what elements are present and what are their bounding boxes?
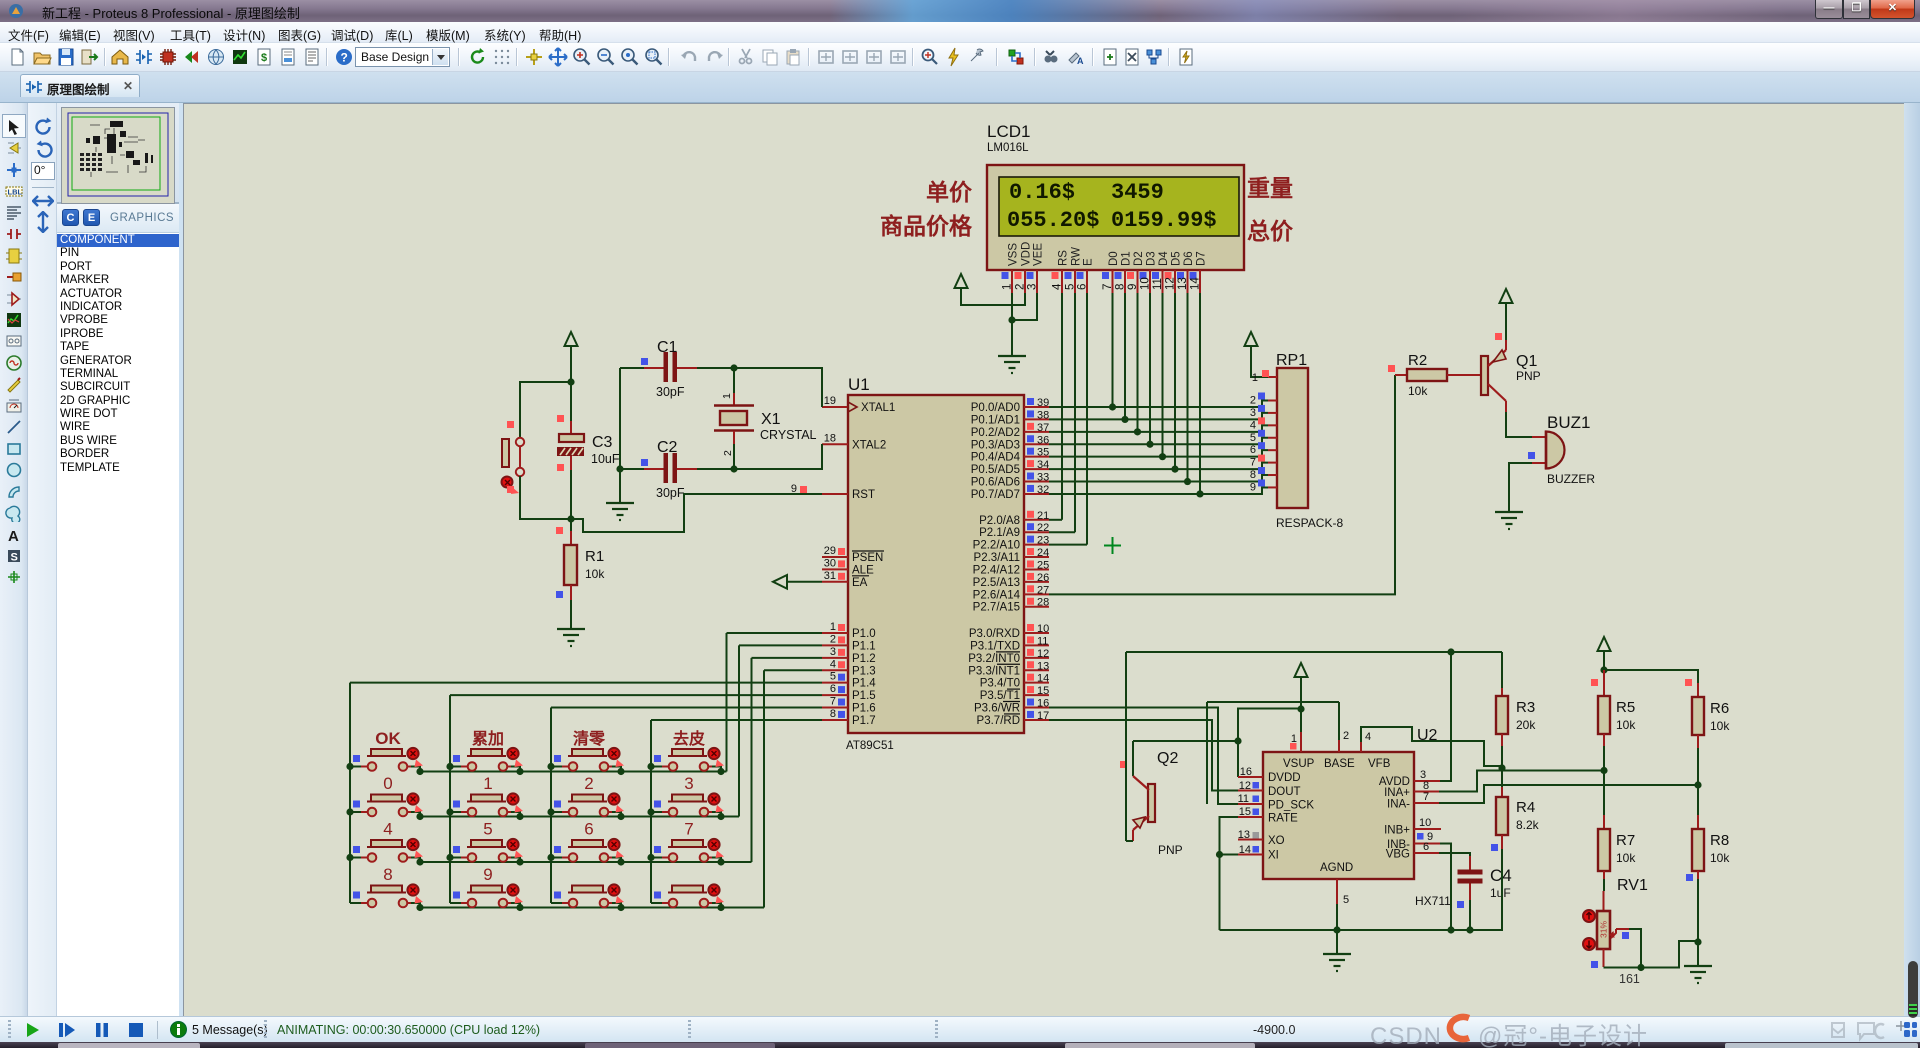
junction DVDD/Q2 emitter: [1234, 737, 1241, 744]
svg-text:U1: U1: [848, 375, 870, 394]
svg-text:RESPACK-8: RESPACK-8: [1276, 516, 1343, 530]
svg-text:8: 8: [830, 708, 836, 720]
junction keypad r2c2 bus: [516, 813, 523, 820]
svg-text:15: 15: [1239, 806, 1251, 818]
svg-text:R2: R2: [1408, 352, 1427, 369]
svg-text:VBG: VBG: [1386, 849, 1410, 861]
capacitor C2: [641, 459, 648, 466]
push button keypad r2c1: [350, 793, 423, 816]
svg-text:LCD1: LCD1: [987, 122, 1030, 141]
ground (R1): [557, 629, 585, 646]
U1 P3.6/WR overline: [1003, 701, 1020, 703]
U1 pin 37 P0.2/AD2: [1024, 431, 1049, 433]
junction D6/P0.6: [1184, 478, 1191, 485]
svg-text:10: 10: [1140, 277, 1152, 290]
svg-text:EA: EA: [852, 577, 868, 589]
svg-text:10k: 10k: [1616, 718, 1636, 732]
svg-text:D1: D1: [1121, 251, 1133, 266]
U2 pin 14 XI: [1238, 854, 1263, 856]
svg-text:C4: C4: [1490, 866, 1512, 885]
junction col2 row3: [446, 854, 453, 861]
pot RV1 actuator up: [1583, 910, 1595, 922]
svg-text:P3.2/INT0: P3.2/INT0: [968, 653, 1020, 665]
wire P1.0 to keypad row 1: [727, 632, 823, 634]
resistor R2: [1388, 365, 1395, 372]
svg-text:5: 5: [483, 820, 492, 839]
svg-text:P0.3/AD3: P0.3/AD3: [971, 439, 1020, 451]
U1 pin 33 P0.6/AD6: [1024, 481, 1049, 483]
svg-text:2: 2: [722, 450, 734, 456]
wire to XTAL2: [734, 444, 822, 469]
svg-text:D2: D2: [1133, 251, 1145, 266]
svg-text:VSS: VSS: [1008, 243, 1020, 266]
svg-text:D0: D0: [1108, 251, 1120, 266]
svg-text:累加: 累加: [472, 730, 504, 748]
keypad row 2 bus: [420, 816, 739, 818]
svg-text:4: 4: [383, 820, 392, 839]
svg-text:P0.5/AD5: P0.5/AD5: [971, 464, 1020, 476]
U1 pin 32 P0.7/AD7: [1024, 493, 1049, 495]
svg-text:INA+: INA+: [1384, 787, 1410, 799]
keypad row 3 bus: [420, 861, 752, 863]
U2 pin 5 AGND: [1336, 879, 1338, 904]
svg-text:0: 0: [383, 774, 392, 793]
svg-text:单价: 单价: [926, 179, 973, 205]
wire P0.7 to RP1 pin 9: [1049, 487, 1268, 494]
junction R8/ground: [1694, 938, 1701, 945]
svg-text:RST: RST: [852, 489, 875, 501]
svg-text:8: 8: [1115, 284, 1127, 290]
ground (LCD): [998, 356, 1026, 373]
svg-text:1: 1: [830, 621, 836, 633]
wire Q2 base to BASE: [1207, 701, 1339, 703]
junction R5 top: [1600, 666, 1607, 673]
keypad column 1 vertical: [349, 683, 351, 903]
svg-text:P1.5: P1.5: [852, 690, 876, 702]
wire P1.4 to keypad column 1: [350, 682, 822, 684]
resistor R2 lead to Q1 base: [1447, 374, 1481, 376]
U1 pin 10 P3.0/RXD: [1024, 632, 1049, 634]
svg-text:8.2k: 8.2k: [1516, 818, 1540, 832]
svg-text:C1: C1: [657, 339, 678, 356]
left tool strip: [0, 103, 28, 1016]
junction D5/P0.5: [1171, 466, 1178, 473]
junction X1 pin2: [730, 465, 737, 472]
svg-text:21: 21: [1037, 510, 1049, 522]
object selector: [57, 204, 183, 1016]
svg-text:9: 9: [1127, 284, 1139, 290]
keypad row 1 bus: [420, 771, 727, 773]
junction R6/R8/INA-: [1694, 781, 1701, 788]
junction D2/P0.2: [1134, 428, 1141, 435]
resistor R4: [1501, 768, 1503, 787]
resistor R8 bottom lead: [1697, 871, 1699, 879]
svg-text:RP1: RP1: [1276, 352, 1307, 369]
svg-text:Q1: Q1: [1516, 353, 1537, 370]
wire P3.6 to PD_SCK: [1049, 708, 1238, 804]
junction D3/P0.3: [1146, 441, 1153, 448]
svg-text:商品价格: 商品价格: [880, 213, 973, 239]
junction keypad r2c4 bus: [717, 813, 724, 820]
wire VSUP power branch to DVDD: [1238, 709, 1301, 742]
wire P0.3 to RP1 pin 5: [1049, 438, 1268, 445]
junction D7/P0.7: [1196, 490, 1203, 497]
svg-text:RS: RS: [1058, 250, 1070, 266]
wire LCD D2 to P0.2: [1137, 293, 1139, 432]
wire P0.4 to RP1 pin 6: [1049, 450, 1268, 457]
svg-text:29: 29: [824, 545, 836, 557]
svg-text:INB+: INB+: [1384, 825, 1410, 837]
resistor R4 bottom lead: [1501, 835, 1503, 849]
svg-text:5: 5: [1065, 284, 1077, 290]
svg-text:BASE: BASE: [1324, 758, 1355, 770]
svg-text:7: 7: [1423, 791, 1429, 803]
svg-text:23: 23: [1037, 535, 1049, 547]
transistor Q1 base bar: [1481, 356, 1488, 395]
watermark: [1370, 1016, 1920, 1046]
junction keypad r4c2 bus: [516, 904, 523, 911]
svg-text:161: 161: [1619, 972, 1640, 986]
svg-text:1uF: 1uF: [1490, 886, 1511, 900]
svg-text:VDD: VDD: [1021, 242, 1033, 266]
svg-text:E: E: [1083, 258, 1095, 266]
svg-text:?: ?: [341, 51, 348, 65]
svg-text:4: 4: [1052, 283, 1064, 290]
U2 pin 8 INA+: [1414, 791, 1439, 793]
svg-text:39: 39: [1037, 397, 1049, 409]
svg-text:PSEN: PSEN: [852, 552, 883, 564]
RP1 pin 6: [1268, 449, 1277, 451]
svg-text:RV1: RV1: [1617, 877, 1648, 894]
U1 pin 13 P3.3/INT1: [1024, 669, 1049, 671]
RP1 pin 5: [1268, 437, 1277, 439]
ground (U2): [1323, 954, 1351, 971]
svg-text:10k: 10k: [585, 567, 605, 581]
svg-text:D6: D6: [1183, 251, 1195, 266]
resistor R7: [1603, 771, 1605, 816]
wire P0.0 to RP1 pin 2: [1049, 401, 1268, 408]
keypad row 3 vertical: [751, 658, 753, 862]
button state squares: [507, 421, 514, 428]
junction keypad r4c4 bus: [717, 904, 724, 911]
svg-text:R8: R8: [1710, 832, 1729, 849]
capacitor C3 lead top: [570, 382, 572, 421]
U1 pin 14 P3.4/T0: [1024, 682, 1049, 684]
svg-text:P1.7: P1.7: [852, 715, 876, 727]
svg-text:P0.4/AD4: P0.4/AD4: [971, 452, 1021, 464]
orientation column: [28, 103, 57, 1016]
svg-text:R4: R4: [1516, 799, 1535, 816]
U2 pin 1 VSUP: [1300, 709, 1302, 732]
svg-text:ALE: ALE: [852, 564, 874, 576]
svg-text:RW: RW: [1071, 247, 1083, 266]
U1 pin 7 P1.6: [822, 707, 848, 709]
resistor R8: [1697, 785, 1699, 815]
junction col3 row2: [547, 808, 554, 815]
tool bar: [0, 43, 1920, 72]
U2 pin 11 PD_SCK: [1238, 803, 1263, 805]
svg-text:7: 7: [1102, 284, 1114, 290]
svg-text:7: 7: [684, 820, 693, 839]
junction col2 row2: [446, 808, 453, 815]
svg-text:$: $: [261, 52, 267, 64]
resistor R7 bottom lead: [1603, 871, 1605, 879]
wire AVDD to rail: [1440, 652, 1451, 781]
U1 pin 35 P0.4/AD4: [1024, 456, 1049, 458]
RP1 pin 3: [1268, 412, 1277, 414]
junction VSUP: [1297, 705, 1304, 712]
svg-text:36: 36: [1037, 434, 1049, 446]
svg-text:6: 6: [1423, 841, 1429, 853]
resistor R5 bottom lead: [1603, 734, 1605, 746]
U1 pin 4 P1.3: [822, 669, 848, 671]
U1 pin 5 P1.4: [822, 682, 848, 684]
svg-text:32: 32: [1037, 484, 1049, 496]
svg-text:XO: XO: [1268, 835, 1285, 847]
U1 pin 19 XTAL1: [822, 406, 848, 408]
wire P2.6 to R2 net: [1049, 375, 1395, 594]
svg-text:15: 15: [1037, 685, 1049, 697]
svg-text:OK: OK: [375, 729, 401, 748]
svg-text:10: 10: [1419, 817, 1431, 829]
svg-text:4: 4: [1365, 731, 1371, 743]
push button keypad r2c2: [450, 793, 523, 816]
U2 pin 12 DOUT: [1238, 790, 1263, 792]
U1 P3.7/RD overline: [1004, 713, 1020, 715]
wire P0.1 to RP1 pin 3: [1049, 413, 1268, 420]
RP1 pin 1: [1268, 376, 1277, 378]
svg-text:30pF: 30pF: [656, 385, 685, 399]
svg-text:31: 31: [824, 570, 836, 582]
resistor R5: [1591, 679, 1598, 686]
keypad row 1 vertical: [726, 633, 728, 772]
svg-text:R7: R7: [1616, 832, 1635, 849]
svg-text:7: 7: [830, 696, 836, 708]
schematic canvas: [179, 103, 183, 1016]
junction R5/R7/INA+: [1600, 767, 1607, 774]
wire INA- to R6/R8 node: [1439, 785, 1697, 803]
keypad column 4 vertical: [650, 720, 652, 903]
push button keypad r2c3: [551, 793, 624, 816]
svg-text:P2.7/A15: P2.7/A15: [973, 602, 1020, 614]
svg-text:2: 2: [1015, 284, 1027, 290]
junction keypad r1c1 bus: [416, 768, 423, 775]
svg-text:26: 26: [1037, 572, 1049, 584]
keypad column 2 vertical: [449, 695, 451, 903]
svg-text:HX711: HX711: [1415, 894, 1451, 908]
svg-text:10k: 10k: [1408, 384, 1428, 398]
pot RV1 actuator down: [1583, 938, 1595, 950]
svg-text:14: 14: [1037, 673, 1049, 685]
respack RP1 body: [1277, 368, 1308, 508]
svg-text:C3: C3: [592, 434, 613, 451]
svg-text:1: 1: [1002, 284, 1014, 290]
svg-text:18: 18: [824, 432, 836, 444]
transistor Q2 bar: [1148, 784, 1155, 822]
status bar: [0, 1016, 1920, 1042]
RP1 pin 8: [1268, 474, 1277, 476]
resistor R6: [1685, 679, 1692, 686]
U1 pin 11 P3.1/TXD: [1024, 644, 1049, 646]
wire P2.0 to LCD RS: [1049, 519, 1062, 521]
svg-text:3: 3: [1250, 407, 1256, 419]
ground rail (U2): [1220, 929, 1504, 931]
svg-text:2: 2: [1250, 395, 1256, 407]
svg-text:9: 9: [483, 865, 492, 884]
junction col1 row2: [346, 808, 353, 815]
svg-text:P2.4/A12: P2.4/A12: [973, 564, 1020, 576]
pot RV1: [1603, 891, 1605, 911]
svg-text:33: 33: [1037, 472, 1049, 484]
push button keypad r1c2: [450, 748, 523, 772]
tab bar: [0, 72, 1920, 103]
wire to XTAL1: [734, 368, 822, 407]
push button keypad r2c4: [651, 793, 724, 816]
U1 P3.2/INT0 overline: [996, 651, 1020, 653]
svg-text:30: 30: [824, 557, 836, 569]
svg-text:BUZZER: BUZZER: [1547, 472, 1595, 486]
wire LCD D1 to P0.1: [1124, 293, 1126, 419]
svg-text:P0.6/AD6: P0.6/AD6: [971, 477, 1020, 489]
svg-text:10uF: 10uF: [591, 452, 620, 466]
svg-text:14: 14: [1190, 277, 1202, 290]
wire P2.1 to LCD RW: [1049, 531, 1075, 533]
svg-text:24: 24: [1037, 547, 1049, 559]
svg-text:19: 19: [824, 395, 836, 407]
push button keypad r1c3: [551, 748, 624, 772]
svg-text:VFB: VFB: [1368, 758, 1391, 770]
svg-text:清零: 清零: [573, 730, 606, 748]
junction col2 row1: [446, 763, 453, 770]
svg-text:XI: XI: [1268, 850, 1279, 862]
wire P0.2 to RP1 pin 4: [1049, 425, 1268, 432]
svg-text:5: 5: [1343, 894, 1349, 906]
U2 pin 7 INA-: [1414, 802, 1439, 804]
svg-text:3459: 3459: [1111, 180, 1164, 205]
svg-text:AT89C51: AT89C51: [846, 740, 894, 752]
svg-text:总价: 总价: [1247, 218, 1294, 244]
minimap: [57, 103, 180, 204]
U1 pin 24 P2.3/A11: [1024, 556, 1049, 558]
svg-text:13: 13: [1238, 829, 1250, 841]
svg-text:C2: C2: [657, 439, 678, 456]
U1 pin 22 P2.1/A9: [1024, 531, 1049, 533]
svg-text:6: 6: [1077, 284, 1089, 290]
U1 pin 28 P2.7/A15: [1024, 606, 1049, 608]
svg-text:DOUT: DOUT: [1268, 786, 1301, 798]
U1 pin 1 P1.0: [822, 632, 848, 634]
U1 pin 16 P3.6/WR: [1024, 707, 1049, 709]
wire LCD D7 to P0.7: [1199, 293, 1201, 494]
junction keypad r3c1 bus: [416, 858, 423, 865]
svg-text:31%: 31%: [1599, 921, 1609, 938]
svg-text:25: 25: [1037, 559, 1049, 571]
wire VBG to C4: [1439, 853, 1470, 856]
junction keypad r3c4 bus: [717, 858, 724, 865]
svg-text:P3.5/T1: P3.5/T1: [980, 690, 1020, 702]
push button keypad r3c3: [551, 839, 624, 862]
svg-text:27: 27: [1037, 584, 1049, 596]
svg-text:去皮: 去皮: [673, 729, 705, 748]
mcu U1 body: [848, 395, 1024, 733]
push button (reset): [502, 439, 509, 467]
svg-text:P3.1/TXD: P3.1/TXD: [970, 640, 1020, 652]
svg-text:12: 12: [1239, 780, 1251, 792]
svg-text:P1.2: P1.2: [852, 653, 876, 665]
junction LCD gnd: [1008, 316, 1015, 323]
wire P3.7 to DOUT: [1049, 720, 1238, 791]
svg-text:12: 12: [1037, 648, 1049, 660]
svg-text:PD_SCK: PD_SCK: [1268, 800, 1314, 812]
svg-text:A: A: [8, 528, 19, 544]
power arrow (R5/R6): [1598, 637, 1611, 651]
svg-text:LM016L: LM016L: [987, 142, 1029, 154]
pot RV1 wiper: [1611, 929, 1616, 938]
svg-text:P1.6: P1.6: [852, 703, 876, 715]
svg-text:X1: X1: [761, 411, 781, 428]
svg-text:D4: D4: [1158, 251, 1170, 266]
svg-text:2: 2: [584, 774, 593, 793]
cursor crosshair: [1104, 537, 1121, 554]
U1 pin 2 P1.1: [822, 644, 848, 646]
junction keypad r3c2 bus: [516, 858, 523, 865]
svg-text:INA-: INA-: [1387, 799, 1410, 811]
svg-text:10k: 10k: [1710, 851, 1730, 865]
svg-text:16: 16: [1037, 698, 1049, 710]
wire Q1 collector to buzzer: [1506, 412, 1532, 437]
junction AGND: [1333, 926, 1340, 933]
RP1 pin 7: [1268, 462, 1277, 464]
svg-text:P0.7/AD7: P0.7/AD7: [971, 489, 1020, 501]
wire P2.2 to LCD E: [1049, 544, 1087, 546]
svg-text:P0.1/AD1: P0.1/AD1: [971, 414, 1020, 426]
svg-text:11: 11: [1037, 635, 1048, 647]
svg-text:P2.5/A13: P2.5/A13: [973, 577, 1020, 589]
wire P0.6 to RP1 pin 8: [1049, 475, 1268, 482]
junction X1 pin1: [730, 364, 737, 371]
U1 pin 36 P0.3/AD3: [1024, 443, 1049, 445]
svg-text:22: 22: [1037, 522, 1049, 534]
svg-text:P0.2/AD2: P0.2/AD2: [971, 427, 1020, 439]
junction col4 row1: [647, 763, 654, 770]
junction keypad r1c2 bus: [516, 768, 523, 775]
svg-text:6: 6: [1250, 444, 1256, 456]
U1 pin 3 P1.2: [822, 657, 848, 659]
svg-text:A: A: [1077, 56, 1084, 66]
power +5V: [565, 332, 578, 346]
junction keypad r1c4 bus: [717, 768, 724, 775]
U2 pin 9 INB-: [1414, 843, 1440, 845]
wire P1.1 to keypad row 2: [739, 644, 822, 646]
U2 pin 3 AVDD: [1414, 780, 1440, 782]
svg-text:DVDD: DVDD: [1268, 772, 1301, 784]
ground (C1/C2): [606, 503, 634, 520]
LCD LCD1 body: [987, 165, 1244, 270]
wire P0.5 to RP1 pin 7: [1049, 463, 1268, 470]
U2 pin 2 BASE: [1338, 740, 1340, 752]
wire power to RP1 pin1: [1251, 346, 1268, 377]
wire LCD D5 to P0.5: [1174, 293, 1176, 469]
U1 pin 21 P2.0/A8: [1024, 519, 1049, 521]
wire RST net: [571, 494, 822, 532]
svg-text:P1.4: P1.4: [852, 678, 876, 690]
keypad row 4 bus: [420, 907, 764, 909]
svg-text:2: 2: [830, 633, 836, 645]
svg-text:BUZ1: BUZ1: [1547, 413, 1590, 432]
junction R3/R4/VFB: [1498, 764, 1505, 771]
U1 pin 8 P1.7: [822, 719, 848, 721]
svg-text:VEE: VEE: [1033, 243, 1045, 266]
